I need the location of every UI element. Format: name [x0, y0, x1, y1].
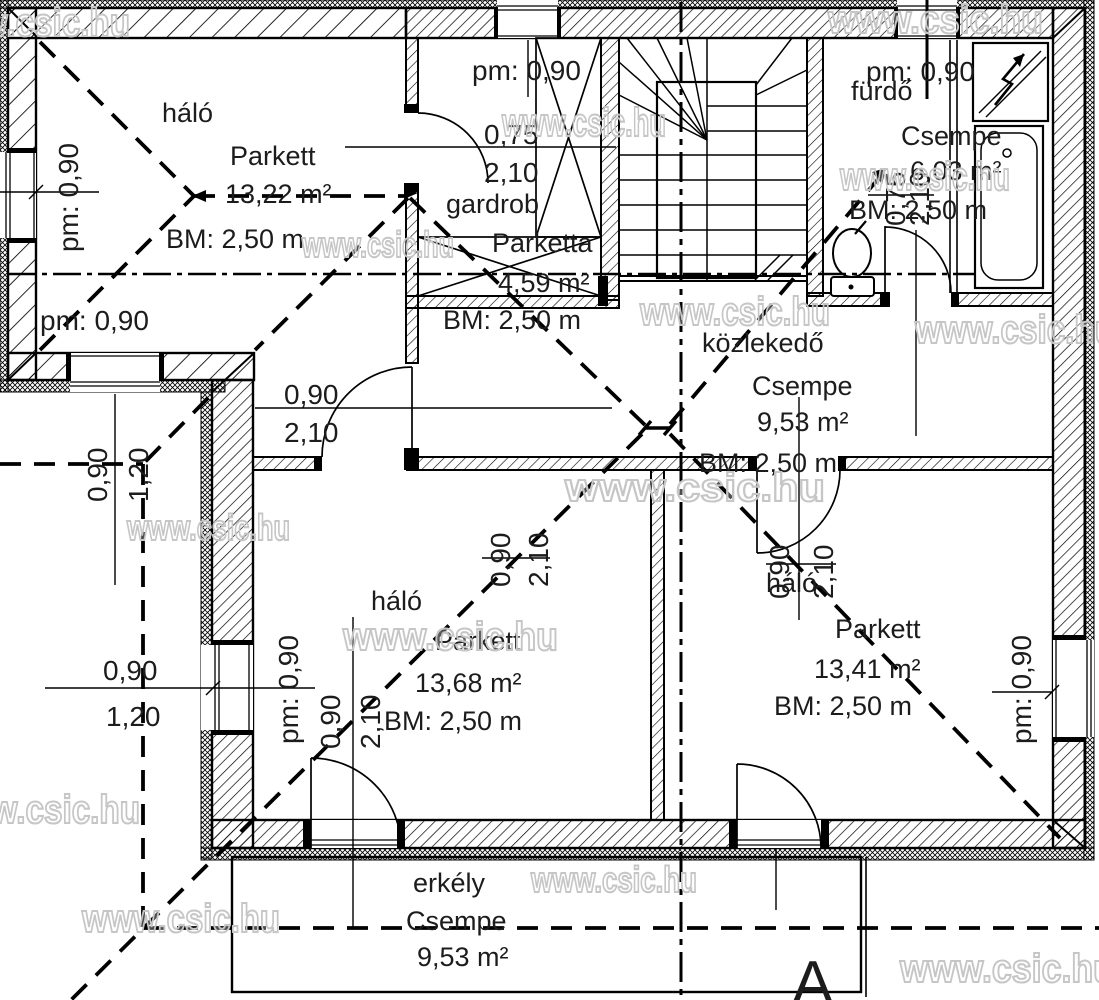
- svg-text:www.csic.hu: www.csic.hu: [564, 466, 825, 510]
- svg-text:pm: 0,90: pm: 0,90: [53, 143, 84, 252]
- svg-text:9,53 m²: 9,53 m²: [417, 942, 509, 972]
- svg-text:0,90: 0,90: [103, 655, 158, 686]
- svg-text:Parkett: Parkett: [230, 141, 316, 171]
- svg-text:0,90: 0,90: [315, 695, 346, 750]
- svg-text:erkély: erkély: [413, 868, 486, 898]
- svg-text:BM: 2,50 m: BM: 2,50 m: [384, 706, 522, 736]
- svg-text:Csempe: Csempe: [901, 121, 1002, 151]
- svg-text:BM: 2,50 m: BM: 2,50 m: [774, 691, 912, 721]
- svg-text:www.csic.hu: www.csic.hu: [342, 615, 558, 659]
- svg-text:Csempe: Csempe: [752, 371, 853, 401]
- svg-text:BM: 2,50 m: BM: 2,50 m: [443, 305, 581, 335]
- svg-text:2,10: 2,10: [355, 695, 386, 750]
- svg-text:www.csic.hu: www.csic.hu: [301, 224, 454, 265]
- svg-text:háló: háló: [162, 98, 213, 128]
- svg-text:www.csic.hu: www.csic.hu: [81, 897, 280, 941]
- svg-text:www.csic.hu: www.csic.hu: [639, 290, 830, 334]
- svg-text:www.csic.hu: www.csic.hu: [827, 0, 1043, 42]
- svg-text:1,20: 1,20: [106, 701, 161, 732]
- svg-text:fürdő: fürdő: [851, 76, 913, 106]
- svg-text:www.csic.hu: www.csic.hu: [899, 947, 1099, 991]
- svg-text:2,10: 2,10: [523, 533, 554, 588]
- svg-text:9,53 m²: 9,53 m²: [757, 407, 849, 437]
- svg-text:pm: 0,90: pm: 0,90: [40, 305, 149, 336]
- svg-text:2,10: 2,10: [484, 157, 539, 188]
- svg-text:13,22 m²: 13,22 m²: [225, 179, 332, 209]
- svg-text:www.csic.hu: www.csic.hu: [530, 859, 697, 900]
- svg-text:www.csic.hu: www.csic.hu: [914, 308, 1099, 352]
- svg-text:BM: 2,50 m: BM: 2,50 m: [166, 224, 304, 254]
- svg-text:Csempe: Csempe: [406, 906, 507, 936]
- svg-text:13,68 m²: 13,68 m²: [415, 668, 522, 698]
- svg-text:Parketta: Parketta: [492, 228, 594, 258]
- svg-text:4,59 m²: 4,59 m²: [498, 268, 590, 298]
- svg-text:gardrob: gardrob: [446, 189, 539, 219]
- svg-text:0,90: 0,90: [485, 533, 516, 588]
- svg-text:pm: 0,90: pm: 0,90: [1006, 635, 1037, 744]
- svg-text:0,90: 0,90: [284, 379, 339, 410]
- svg-text:háló: háló: [766, 568, 817, 598]
- svg-text:pm: 0,90: pm: 0,90: [472, 55, 581, 86]
- svg-text:Parkett: Parkett: [835, 614, 921, 644]
- svg-text:A: A: [792, 949, 834, 1000]
- svg-text:www.csic.hu: www.csic.hu: [0, 1, 130, 45]
- svg-text:pm: 0,90: pm: 0,90: [273, 635, 304, 744]
- svg-text:www.csic.hu: www.csic.hu: [501, 101, 666, 145]
- svg-text:www.csic.hu: www.csic.hu: [126, 507, 290, 548]
- svg-text:13,41 m²: 13,41 m²: [814, 654, 921, 684]
- svg-text:www.csic.hu: www.csic.hu: [839, 155, 1010, 199]
- svg-text:0,90: 0,90: [82, 448, 113, 503]
- svg-text:háló: háló: [371, 586, 422, 616]
- svg-text:2,10: 2,10: [284, 417, 339, 448]
- svg-text:www.csic.hu: www.csic.hu: [0, 788, 140, 832]
- svg-text:1,20: 1,20: [123, 448, 154, 503]
